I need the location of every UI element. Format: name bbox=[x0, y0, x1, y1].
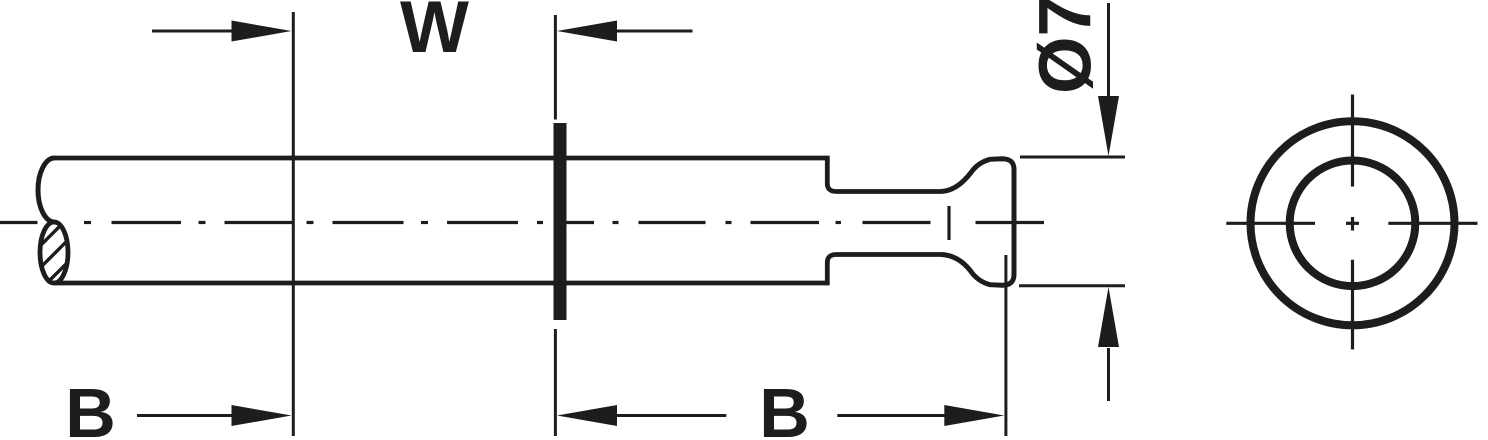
flange (thick collar bar) bbox=[554, 123, 567, 320]
center cross mark bbox=[1346, 222, 1359, 225]
centerline side view (dash-dot axis) bbox=[0, 221, 1044, 224]
rod body outline (shaft) bbox=[55, 158, 942, 192]
front view horizontal centerline left bbox=[1226, 222, 1315, 225]
extension line at head right bbox=[1004, 255, 1007, 436]
diameter ticks at head bbox=[1020, 156, 1125, 159]
W dimension left arrow bbox=[152, 30, 236, 33]
extension line left (x=293) bbox=[292, 12, 295, 436]
extension line at flange bottom bbox=[554, 329, 557, 436]
B middle arrow (points left to flange) bbox=[613, 414, 726, 417]
svg-text:W: W bbox=[400, 0, 469, 68]
front view outer circle bbox=[1251, 121, 1455, 325]
W dimension right arrow bbox=[613, 30, 693, 33]
neck center tick bbox=[947, 206, 950, 240]
front view inner circle bbox=[1290, 161, 1416, 287]
hatching in cross-section bbox=[20, 216, 94, 308]
svg-text:B: B bbox=[65, 374, 116, 440]
diameter arrow up bbox=[1107, 348, 1110, 401]
B left arrow bbox=[137, 414, 236, 417]
rod end cap arc (break) bbox=[38, 158, 54, 222]
extension line at flange top bbox=[554, 15, 557, 120]
rod bottom outline bbox=[54, 255, 941, 284]
svg-text:Ø7: Ø7 bbox=[1024, 0, 1107, 94]
front view vertical centerline bottom bbox=[1351, 260, 1354, 350]
B right arrow (points right to head edge) bbox=[837, 414, 948, 417]
head (countersunk) outline top flare bbox=[941, 159, 1014, 286]
svg-text:B: B bbox=[759, 374, 810, 440]
front view vertical centerline top bbox=[1351, 95, 1354, 187]
front view horizontal centerline right bbox=[1388, 222, 1477, 225]
diameter arrow down bbox=[1107, 3, 1110, 100]
